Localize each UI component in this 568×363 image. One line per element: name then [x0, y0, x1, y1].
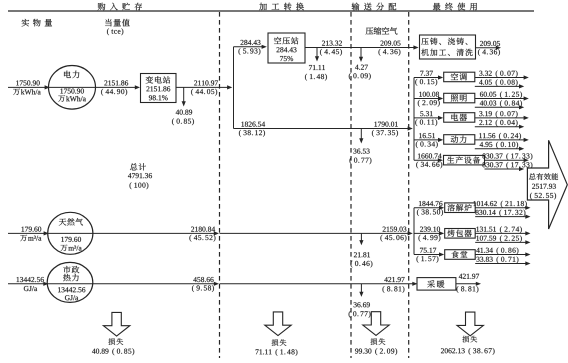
node: end-use junction electricity [413, 78, 415, 161]
wire: melting-furnace useful output [475, 207, 526, 209]
label: loss 36.69 [354, 302, 370, 307]
wire: power-drive loss output [475, 148, 520, 150]
label: gas input unit [20, 235, 41, 241]
label: production-equipment name [447, 156, 480, 163]
wire: appliances useful output [475, 117, 525, 119]
label: physical quantity [22, 19, 52, 27]
label: (5.93) [239, 48, 261, 55]
label: (4.36) before use [379, 49, 401, 56]
wire: die-casting useful output [476, 47, 497, 49]
label: 213.32 [322, 41, 342, 46]
label: circle gas value [61, 237, 81, 242]
label: production-equipment input paren [416, 162, 442, 169]
label: 421.97 [384, 277, 404, 282]
wire: substation loss drop [183, 87, 185, 102]
wire: branch to lighting [414, 98, 439, 100]
label: production-equipment loss value [482, 162, 532, 169]
wire: air-conditioning loss output [475, 85, 520, 87]
label: useful energy caption [529, 173, 558, 180]
column divider 2 (dashed) [350, 12, 352, 358]
label: die-casting line1 [421, 38, 467, 45]
label: useful energy paren [530, 193, 556, 200]
wire: branch to canteen [414, 254, 440, 256]
wire: distribution loss drop 36.53 [360, 129, 362, 140]
label: loss4 caption [462, 336, 477, 343]
end-use box: lighting [444, 93, 475, 103]
label: heat input unit GJ/a [24, 286, 37, 291]
label: circle electricity unit [58, 95, 86, 101]
label: lighting input value [419, 92, 439, 97]
label: circle heat unit [65, 295, 78, 300]
end-use box: die-casting/machining/cleaning [420, 35, 476, 59]
label: loss4 value [441, 348, 495, 355]
end-use box: air-conditioning [444, 72, 475, 82]
label: canteen useful value [476, 247, 518, 254]
label: loss1 caption [108, 338, 123, 345]
wire: branch to appliances [414, 117, 439, 119]
label: power-drive useful value [479, 133, 521, 140]
wire: appliances loss output [475, 126, 520, 128]
label: gas input value 179.60 [22, 227, 42, 232]
label: air-conditioning loss value [479, 79, 517, 86]
label: appliances input paren [415, 119, 437, 126]
label: tce unit [107, 28, 123, 35]
label: (9.58) [192, 285, 214, 292]
label: electricity input value 1750.90 [16, 80, 39, 85]
label: electricity input unit [13, 89, 41, 95]
label: air-conditioning input value [420, 71, 432, 76]
wire: electricity distribution line [234, 128, 409, 130]
label: total (100) [130, 182, 149, 189]
label: ladle-heater input paren [419, 235, 441, 242]
label: ladle-heater useful value [476, 226, 521, 233]
wire: gas distribution line [220, 232, 409, 234]
column divider 3 (dashed) [408, 12, 410, 358]
wire: power-drive useful output [475, 139, 525, 141]
wire: branch to air-conditioning [414, 77, 439, 79]
label: (44.90) [101, 89, 127, 96]
label: substation efficiency [149, 95, 168, 100]
label: loss 71.11 [309, 65, 325, 70]
wire: branch to melting-furnace [414, 207, 440, 209]
loss arrow: processing-conversion [265, 312, 291, 336]
label: loss3 caption [371, 338, 386, 345]
label: air-conditioning useful value [479, 70, 517, 77]
label: (38.12) [239, 130, 265, 137]
label: circle electricity name [64, 71, 79, 79]
label: loss3 value [355, 348, 397, 355]
label: air-conditioning input paren [415, 79, 437, 86]
label: melting-furnace input paren [417, 209, 443, 216]
wire: compressed air loss drop [316, 48, 318, 58]
header: purchase-storage [98, 3, 142, 11]
label: (8.81) [383, 286, 405, 293]
label: die-casting line2 [421, 49, 472, 56]
source circle: natural gas [48, 212, 93, 254]
label: substation name [146, 76, 171, 83]
label: loss1 value [92, 348, 134, 355]
wire: branch to ladle-heater [414, 232, 440, 234]
label: lighting input paren [418, 100, 440, 107]
label: 209.05 before use [381, 41, 401, 46]
wire: electricity to substation [96, 86, 136, 88]
label: equivalent value [105, 19, 130, 27]
label: heating output (8.81) [457, 286, 479, 293]
label: total caption [130, 163, 146, 170]
label: ladle-heater input value [420, 227, 440, 232]
label: air compressor value [277, 47, 297, 52]
output arrow: total useful energy [527, 140, 567, 229]
label: 284.43 [241, 40, 261, 45]
label: melting-furnace name [448, 204, 472, 211]
label: air-conditioning name [451, 73, 467, 80]
label: (45.06) [380, 235, 406, 242]
label: lighting useful value [480, 91, 522, 98]
label: circle gas unit [61, 245, 82, 251]
wire: canteen loss output [475, 263, 526, 265]
header: transmission-distribution [352, 3, 397, 11]
label: appliances name [451, 114, 467, 121]
wire: compressed air line [305, 47, 414, 49]
label: output (4.36) [478, 49, 500, 56]
label: (0.46) [351, 261, 373, 268]
wire: substation output [176, 86, 228, 88]
label: (45.52) [189, 235, 215, 242]
label: canteen input paren [417, 256, 439, 263]
wire: branch to production-equipment [414, 159, 439, 161]
label: canteen input value [420, 248, 436, 253]
wire: production-equipment useful output [485, 159, 525, 161]
label: 1790.01 [374, 122, 397, 127]
label: appliances loss value [479, 120, 517, 127]
label: 2180.84 [191, 227, 215, 232]
label: melting-furnace loss value [475, 210, 525, 217]
wire: heat to distribution [93, 283, 215, 285]
wire: heat through circle [47, 283, 92, 285]
label: 2110.97 [194, 80, 218, 85]
label: heat input value 13442.56 [17, 277, 44, 282]
label: ladle-heater loss value [476, 235, 521, 242]
wire: natural gas input [8, 232, 45, 234]
header: processing-conversion [259, 3, 304, 11]
source circle: electricity [49, 66, 96, 110]
label: (0.77) heat [349, 311, 371, 318]
node: end-use junction gas [413, 208, 415, 255]
label: loss 36.53 [353, 149, 369, 154]
wire: distribution loss drop 4.27 [360, 48, 362, 58]
label: appliances useful value [479, 111, 517, 118]
label: (0.09) [349, 73, 371, 80]
converter box: air compressor station [268, 33, 305, 63]
label: total value 4791.36 [128, 173, 152, 178]
wire: production-equipment loss output [485, 168, 521, 170]
label: circle gas name [59, 218, 83, 225]
label: power-drive input value [419, 133, 435, 138]
end-use box: ladle-heater [445, 229, 476, 239]
loss arrow: transmission-distribution [363, 312, 389, 336]
label: ladle-heater name [447, 230, 471, 237]
label: output 209.05 [480, 41, 500, 46]
wire: gas through circle [48, 232, 94, 234]
loss arrow: final-use [457, 312, 483, 336]
wire: heat distribution line [220, 283, 414, 285]
label: air compressor name [274, 37, 298, 44]
label: loss 21.81 [354, 252, 370, 257]
end-use box: canteen [445, 250, 476, 260]
label: (37.35) [372, 130, 398, 137]
label: melting-furnace useful value [473, 201, 526, 208]
label: compressed air [366, 27, 398, 35]
wire: electricity input [8, 86, 46, 88]
wire: melting-furnace loss output [475, 216, 526, 218]
label: loss2 caption [272, 339, 287, 346]
label: (0.85) [172, 118, 194, 125]
label: canteen name [452, 251, 468, 258]
source circle: municipal heat [47, 262, 93, 302]
wire: air-conditioning useful output [475, 77, 525, 79]
label: 458.66 [193, 277, 213, 282]
label: production-equipment useful value [482, 153, 532, 160]
label: useful energy value [532, 184, 556, 189]
wire: gas to distribution [93, 232, 215, 234]
wire: municipal heat input [8, 283, 44, 285]
converter box: substation [141, 74, 177, 103]
wire: branch to power-drive [414, 139, 439, 141]
end-use box: heating [417, 278, 456, 291]
label: heating name [427, 280, 444, 288]
label: production-equipment input value [418, 153, 442, 158]
label: (0.77) elec [350, 157, 372, 164]
wire: heating useful output [456, 283, 477, 285]
label: circle heat name line1 [63, 266, 79, 273]
label: 1826.54 [241, 122, 265, 127]
label: circle electricity value [60, 89, 83, 94]
end-use box: appliances [444, 113, 475, 123]
end-use box: melting-furnace [445, 203, 476, 213]
label: melting-furnace input value [419, 201, 442, 206]
label: power-drive loss value [480, 142, 518, 149]
label: 2159.03 [383, 227, 407, 232]
header: final-use [433, 3, 477, 11]
wire: gas loss drop 21.81 [360, 233, 362, 241]
label: loss2 value [256, 349, 298, 356]
wire: heat loss drop 36.69 [360, 284, 362, 293]
wire: branch to air compressor [234, 46, 263, 48]
wire: ladle-heater loss output [475, 241, 526, 243]
label: loss 4.27 [355, 65, 368, 70]
label: canteen loss value [477, 256, 519, 263]
node: electricity split junction [233, 47, 235, 129]
wire: electricity through circle [49, 86, 96, 88]
label: substation value [146, 86, 170, 91]
end-use box: production-equipment [444, 155, 485, 165]
label: appliances input value [420, 111, 432, 116]
loss arrow: purchase-storage [103, 312, 129, 336]
label: 2151.86 [104, 80, 128, 85]
column divider 1 (dashed) [219, 12, 221, 358]
wire: canteen useful output [475, 254, 526, 256]
wire: ladle-heater useful output [475, 232, 526, 234]
label: power-drive name [451, 136, 467, 143]
label: lighting loss value [480, 100, 522, 107]
wire: lighting useful output [475, 98, 525, 100]
label: lighting name [451, 94, 467, 101]
label: heating output 421.97 [459, 274, 479, 279]
label: (44.05) [191, 89, 217, 96]
label: (1.48) [305, 74, 327, 81]
label: air compressor efficiency [280, 56, 293, 61]
label: loss 40.89 [176, 110, 192, 115]
label: circle heat name line2 [63, 274, 78, 281]
wire: lighting loss output [475, 106, 520, 108]
label: circle heat value [58, 287, 85, 292]
end-use box: power-drive [444, 135, 475, 145]
label: power-drive input paren [416, 141, 438, 148]
label: (4.45) [320, 49, 342, 56]
top rule [8, 10, 534, 12]
